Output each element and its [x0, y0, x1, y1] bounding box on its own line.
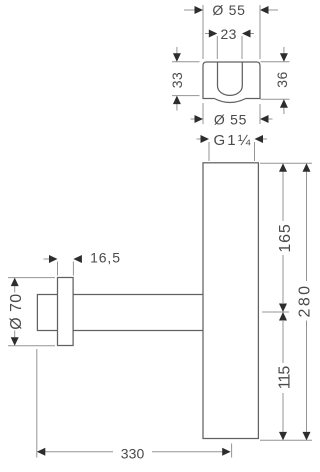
svg-text:330: 330 [121, 446, 145, 462]
dimension 330 [37, 349, 232, 458]
dimension 16,5 [44, 259, 74, 276]
siphon body tube [203, 163, 258, 439]
dimension 280 [260, 172, 312, 441]
svg-text:16,5: 16,5 [90, 250, 121, 266]
svg-text:115: 115 [277, 366, 294, 390]
svg-text:G1¼: G1¼ [213, 132, 252, 149]
dimension 115 [282, 321, 284, 432]
dimension D55 top [184, 5, 278, 59]
svg-text:Ø 70: Ø 70 [8, 293, 25, 329]
wall escutcheon outline [203, 62, 260, 103]
svg-text:23: 23 [221, 26, 237, 42]
dimension D55 lower [191, 103, 273, 124]
U-slot cutout [218, 62, 243, 95]
svg-text:Ø 55: Ø 55 [212, 2, 245, 18]
svg-text:165: 165 [277, 223, 294, 252]
dimension 165 [260, 163, 312, 312]
svg-text:280: 280 [297, 284, 314, 318]
dimension 23 [205, 34, 254, 60]
svg-text:36: 36 [274, 71, 290, 87]
outlet pipe [37, 295, 203, 331]
svg-text:Ø 55: Ø 55 [214, 111, 247, 127]
dimension G1 1/4 [197, 139, 268, 161]
svg-text:33: 33 [169, 72, 185, 88]
dimension 36 [261, 47, 290, 114]
wall flange [58, 278, 74, 346]
dimension D70 [8, 278, 55, 346]
dimension 33 [172, 47, 200, 111]
